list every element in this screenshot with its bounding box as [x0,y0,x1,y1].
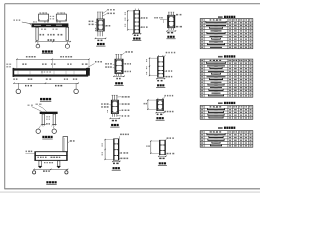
section 8-8: ladder side elevation [114,139,120,160]
rebar schedule table 4: grid [200,131,253,148]
long beam elevation: top dimension texts [26,56,72,58]
section 4-4: top-right leader label [121,51,133,55]
frame detail: title [42,136,52,139]
section 6-6: bottom dimension and title [110,118,121,127]
frame detail: grid bubble left [36,127,40,134]
rebar schedule table 3: title [218,102,235,104]
section 3-3: left dimension text [154,17,167,23]
section 3-3: stirrup and bar dots [169,17,174,27]
long beam elevation: right-end leader and label [88,61,102,68]
beam elevation L-1: text above beam [33,21,61,22]
section 2-2: ladder side elevation [134,9,140,33]
bottom beam: label right of column [68,140,75,142]
long beam elevation: beam top flange [13,68,90,70]
rebar schedule table 3: grid [200,106,253,120]
beam elevation L-1: title text [42,50,53,53]
section 8-8: right leader labels [119,152,128,159]
section 6-6: column section outline [111,100,118,113]
sheet inner frame (gray border) [5,4,260,190]
section 4-4: column section outline [115,59,123,73]
rebar schedule table 2: title [218,55,235,57]
rebar schedule table 1: data rows (rebar shape sketches and values) [201,21,251,48]
rebar schedule table 2: header row text [201,60,252,61]
bottom beam: upstand column [63,137,68,152]
section 6-6: vertical dowel bars [112,95,118,117]
section 1-1: top-right leader labels [102,9,114,16]
section 5-5: top-right leader label [164,52,175,58]
section 1-1: right leader label [104,25,110,27]
section 9-9: top-right leader label [166,137,174,140]
beam elevation L-1: grid bubble A [36,42,40,48]
section 5-5: ladder side elevation [158,55,165,77]
section 7-7: bottom-right leader label [164,110,174,112]
section 9-9: ladder side elevation [159,140,165,155]
frame detail: middle annotation texts [46,116,50,124]
rebar schedule table 4: header row text [201,131,252,132]
long beam elevation: bottom dimension line [13,83,79,87]
frame detail: grid bubble right [52,127,56,134]
bottom beam: left dimension text [25,151,34,154]
rebar schedule table 2: data rows (rebar shape sketches and values) [201,61,251,96]
frame detail: footing lines and hatches [41,125,57,127]
section 8-8: left height dimension [102,139,114,160]
bottom beam: beam body with top ledge [34,152,67,161]
section 1-1: title [96,43,105,46]
frame detail: top beam (dark) [40,112,58,114]
beam elevation L-1: left support column [36,27,38,40]
section 5-5: right leader labels [164,70,172,77]
rebar schedule table 2: grid [200,59,253,97]
section 1-1: stirrup and bar dots [98,20,103,29]
section 1-1: bottom dimension [95,38,107,41]
rebar schedule table 1: title [218,16,235,18]
frame detail: right column [53,114,56,125]
section 6-6: left leader labels [101,103,111,112]
section 8-8: top-right leader label [119,134,129,139]
rebar schedule table 1: grid [200,19,253,49]
section 2-2: left height dimension [125,10,134,30]
bottom beam: posts and footings [38,161,61,168]
section 7-7: stirrup and bar dots [158,101,163,110]
beam elevation L-1: beam body (dark band) [32,23,69,27]
section 3-3: bottom dimension and title [166,30,176,38]
frame detail: top leader curves and labels [28,104,47,112]
long beam elevation: right end anchor block [86,68,90,76]
long beam elevation: grid bubble 2 [74,83,79,93]
section 9-9: left height dimension [146,140,159,154]
section 6-6: right leader labels [117,96,130,117]
section 9-9: bottom dimension and title [158,156,167,166]
section 7-7: left height dimension [144,99,157,110]
section 4-4: left leader labels [105,63,115,68]
bottom beam: grid bubble right [65,169,68,174]
section 5-5: bottom dimension and title [156,78,165,87]
section 4-4: vertical dowel bars [115,54,121,76]
long beam elevation: beam web with stirrup marks [18,71,74,74]
long beam elevation: left end cap and left text [6,64,14,77]
beam elevation L-1: bottom dimension line [35,39,71,42]
beam elevation L-1: column stub right [56,12,66,21]
section 2-2: right leader labels [140,17,148,28]
section 7-7: column section outline [157,98,164,111]
section 7-7: top-right leader label [164,95,174,100]
rebar schedule table 4: data rows (rebar shape sketches and values) [201,133,251,147]
long beam elevation: grid bubble 1 [16,83,21,93]
rebar schedule table 1: header row text [201,19,252,20]
beam elevation L-1: column stub left [39,12,49,21]
section 9-9: bottom-right leader label [166,153,175,155]
section 7-7: bottom dimension and title [156,112,165,120]
section 4-4: bottom dimension and title [113,76,125,86]
long beam elevation: rebar callout texts above beam [22,63,87,65]
bottom beam: grid bubble left [33,171,36,174]
beam elevation L-1: leader arrow at left end [14,20,32,25]
section 6-6: stirrup and bar dots [112,101,117,112]
section 4-4: right leader labels [123,63,131,72]
rebar schedule table 3: data rows (rebar shape sketches and values) [201,108,251,119]
bottom beam: bottom dimension line [33,169,68,172]
beam elevation L-1: grid bubble B [65,42,69,49]
long beam elevation: top dimension line [16,59,89,68]
frame detail: left column [42,114,44,125]
section 3-3: right leader labels [175,14,182,28]
rebar schedule table 3: header row text [201,106,252,107]
long beam elevation: title [40,98,51,101]
section 1-1: column section outline [97,19,104,31]
beam elevation L-1: rebar annotation rows under beam [40,29,63,36]
section 1-1: left leader labels [89,21,97,32]
bottom beam: title [46,181,56,184]
section 5-5: left height dimension [146,58,158,77]
section 3-3: column section outline [168,15,175,27]
section 3-3: vertical dowel bars [168,12,174,30]
section 2-2: bottom dimension and title [132,33,141,41]
section 1-1: vertical dowel bars [97,12,103,36]
section 8-8: bottom dimension and title [112,161,121,170]
section 4-4: stirrup and bar dots [116,60,122,72]
long beam elevation: beam bottom flange [13,75,89,77]
long beam elevation: texts under beam [13,78,77,80]
beam elevation L-1: rebar text above stubs [39,12,63,19]
rebar schedule table 4: title [218,127,235,129]
sheet outer bottom edge line [0,191,260,193]
beam elevation L-1: right support column [66,27,69,40]
